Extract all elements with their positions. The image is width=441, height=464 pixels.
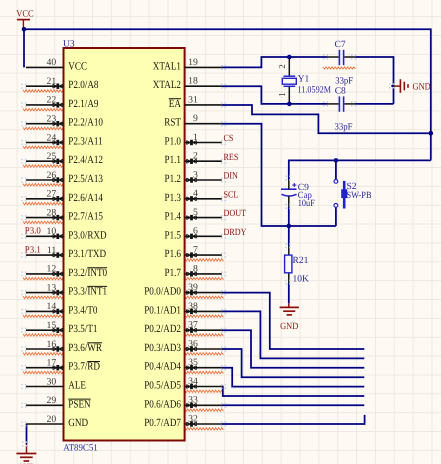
- svg-text:GND: GND: [413, 82, 431, 92]
- svg-text:EA: EA: [169, 98, 181, 110]
- svg-text:DOUT: DOUT: [224, 209, 247, 219]
- svg-text:P1.5: P1.5: [165, 229, 182, 241]
- svg-text:U3: U3: [63, 39, 75, 49]
- svg-text:12: 12: [47, 264, 57, 275]
- svg-text:PSEN: PSEN: [68, 398, 90, 410]
- svg-text:9: 9: [193, 113, 198, 124]
- svg-text:P1.1: P1.1: [165, 154, 182, 166]
- svg-text:18: 18: [188, 76, 198, 87]
- svg-text:RST: RST: [164, 117, 181, 129]
- svg-text:2: 2: [277, 64, 287, 69]
- svg-text:29: 29: [47, 395, 57, 406]
- svg-text:34: 34: [188, 376, 198, 387]
- svg-text:37: 37: [188, 320, 198, 331]
- svg-text:20: 20: [47, 414, 57, 425]
- svg-text:25: 25: [47, 151, 57, 162]
- svg-text:P2.1/A9: P2.1/A9: [68, 98, 99, 110]
- svg-text:P0.0/AD0: P0.0/AD0: [144, 286, 181, 298]
- svg-text:P0.2/AD2: P0.2/AD2: [144, 323, 181, 335]
- svg-text:13: 13: [47, 282, 57, 293]
- svg-text:21: 21: [47, 76, 57, 87]
- svg-text:R21: R21: [293, 256, 309, 266]
- svg-text:33pF: 33pF: [335, 77, 353, 87]
- svg-text:P0.3/AD3: P0.3/AD3: [144, 342, 181, 354]
- svg-text:19: 19: [188, 57, 198, 68]
- svg-text:10K: 10K: [293, 274, 310, 284]
- svg-text:30: 30: [47, 376, 57, 387]
- svg-text:Y1: Y1: [298, 75, 310, 85]
- svg-text:P1.0: P1.0: [165, 136, 182, 148]
- svg-text:33: 33: [188, 395, 198, 406]
- svg-text:XTAL2: XTAL2: [153, 79, 181, 91]
- svg-text:17: 17: [47, 358, 57, 369]
- svg-text:4: 4: [193, 188, 198, 199]
- svg-text:P1.3: P1.3: [165, 192, 182, 204]
- svg-text:11.0592M: 11.0592M: [298, 85, 332, 95]
- svg-text:SW-PB: SW-PB: [347, 191, 372, 201]
- svg-text:10: 10: [47, 226, 57, 237]
- svg-text:P2.0/A8: P2.0/A8: [68, 79, 99, 91]
- svg-text:23: 23: [47, 114, 57, 125]
- svg-text:P3.4/T0: P3.4/T0: [68, 304, 98, 316]
- svg-text:DIN: DIN: [224, 172, 239, 182]
- svg-text:32: 32: [188, 413, 198, 424]
- svg-text:P0.4/AD4: P0.4/AD4: [144, 361, 181, 373]
- svg-text:14: 14: [47, 301, 57, 312]
- svg-text:P2.3/A11: P2.3/A11: [68, 136, 102, 148]
- svg-text:36: 36: [188, 338, 198, 349]
- svg-text:RES: RES: [224, 153, 239, 163]
- svg-text:SCL: SCL: [224, 190, 239, 200]
- svg-text:P1.4: P1.4: [165, 211, 182, 223]
- svg-text:CS: CS: [224, 134, 234, 144]
- svg-text:P2.4/A12: P2.4/A12: [68, 154, 103, 166]
- svg-text:7: 7: [193, 245, 198, 256]
- svg-text:39: 39: [188, 282, 198, 293]
- svg-text:P3.5/T1: P3.5/T1: [68, 323, 97, 335]
- svg-text:31: 31: [188, 94, 198, 105]
- svg-text:5: 5: [193, 207, 198, 218]
- svg-text:24: 24: [47, 132, 57, 143]
- svg-text:2: 2: [193, 151, 198, 162]
- svg-text:P3.0/RXD: P3.0/RXD: [68, 229, 106, 241]
- svg-text:11: 11: [47, 245, 56, 256]
- svg-text:P2.2/A10: P2.2/A10: [68, 117, 103, 129]
- svg-text:P0.5/AD5: P0.5/AD5: [144, 380, 181, 392]
- svg-text:6: 6: [193, 226, 198, 237]
- svg-text:P0.7/AD7: P0.7/AD7: [144, 417, 181, 429]
- svg-text:1: 1: [193, 132, 198, 143]
- svg-text:40: 40: [47, 57, 57, 68]
- svg-text:8: 8: [193, 263, 198, 274]
- svg-text:P3.1: P3.1: [25, 245, 41, 255]
- svg-text:P1.2: P1.2: [165, 173, 182, 185]
- svg-text:P0.1/AD1: P0.1/AD1: [144, 304, 181, 316]
- svg-text:26: 26: [47, 170, 57, 181]
- svg-text:XTAL1: XTAL1: [153, 60, 181, 72]
- svg-text:P3.1/TXD: P3.1/TXD: [68, 248, 106, 260]
- svg-text:15: 15: [47, 320, 57, 331]
- svg-text:P1.6: P1.6: [165, 248, 182, 260]
- svg-text:33pF: 33pF: [335, 122, 353, 132]
- svg-text:VCC: VCC: [16, 10, 33, 20]
- svg-text:AT89C51: AT89C51: [63, 443, 98, 453]
- svg-text:27: 27: [47, 189, 57, 200]
- svg-text:P1.7: P1.7: [165, 267, 182, 279]
- svg-text:P3.3/INT1: P3.3/INT1: [68, 286, 107, 298]
- svg-text:VCC: VCC: [68, 60, 87, 72]
- svg-text:28: 28: [47, 207, 57, 218]
- svg-text:P3.7/RD: P3.7/RD: [68, 361, 100, 373]
- svg-text:1: 1: [277, 92, 287, 97]
- svg-text:GND: GND: [280, 322, 298, 332]
- svg-text:3: 3: [193, 169, 198, 180]
- svg-text:P2.6/A14: P2.6/A14: [68, 192, 103, 204]
- svg-text:16: 16: [47, 339, 57, 350]
- svg-text:10uF: 10uF: [298, 199, 315, 209]
- svg-text:C7: C7: [335, 40, 346, 50]
- svg-text:P3.6/WR: P3.6/WR: [68, 342, 102, 354]
- svg-text:P0.6/AD6: P0.6/AD6: [144, 398, 181, 410]
- svg-text:ALE: ALE: [68, 380, 86, 392]
- svg-text:P2.5/A13: P2.5/A13: [68, 173, 103, 185]
- svg-text:P2.7/A15: P2.7/A15: [68, 211, 103, 223]
- svg-text:DRDY: DRDY: [224, 228, 247, 238]
- svg-text:38: 38: [188, 301, 198, 312]
- svg-text:P3.0: P3.0: [25, 227, 41, 237]
- svg-text:35: 35: [188, 357, 198, 368]
- svg-text:22: 22: [47, 95, 57, 106]
- svg-text:GND: GND: [68, 417, 88, 429]
- svg-text:P3.2/INT0: P3.2/INT0: [68, 267, 107, 279]
- svg-text:C8: C8: [335, 87, 346, 97]
